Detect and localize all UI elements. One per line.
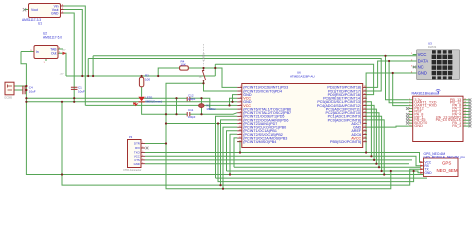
svg-text:16MHz: 16MHz (206, 107, 216, 111)
svg-text:15: 15 (464, 113, 466, 115)
svg-text:10uF: 10uF (78, 90, 85, 94)
svg-text:5: 5 (409, 110, 410, 112)
svg-text:10: 10 (409, 125, 411, 127)
svg-text:5: 5 (142, 159, 143, 161)
svg-text:VCC: VCC (418, 52, 427, 57)
svg-text:TAB: TAB (50, 47, 57, 51)
svg-text:C12: C12 (188, 94, 194, 98)
svg-text:14: 14 (464, 116, 466, 118)
svg-text:Vout: Vout (31, 8, 38, 12)
svg-text:100: 100 (145, 77, 150, 81)
svg-text:17: 17 (464, 107, 466, 109)
svg-text:NC: NC (418, 64, 424, 69)
svg-text:9: 9 (409, 122, 410, 124)
svg-text:U1: U1 (38, 21, 42, 25)
svg-text:GND: GND (134, 162, 140, 166)
svg-text:GPS_MODULE_NEO-6M_pro: GPS_MODULE_NEO-6M_pro (424, 155, 466, 159)
svg-text:100pF: 100pF (188, 97, 196, 101)
svg-text:DATA: DATA (418, 58, 429, 63)
svg-text:P3: P3 (129, 135, 133, 139)
svg-text:11: 11 (464, 125, 466, 127)
svg-text:12: 12 (464, 122, 466, 124)
svg-text:DHT22: DHT22 (428, 45, 437, 49)
svg-text:FTDI-Connector: FTDI-Connector (124, 169, 142, 172)
svg-text:GND: GND (418, 70, 427, 75)
svg-text:3: 3 (142, 151, 143, 153)
svg-text:2: 2 (409, 102, 410, 104)
svg-text:U3: U3 (428, 42, 432, 46)
svg-text:ATMEGA328P-AU: ATMEGA328P-AU (290, 74, 315, 78)
svg-text:PB5(SCK/PCINT5): PB5(SCK/PCINT5) (330, 140, 361, 144)
svg-text:7: 7 (409, 116, 410, 118)
svg-text:8: 8 (409, 119, 410, 121)
svg-text:100pF: 100pF (188, 115, 196, 119)
svg-text:19: 19 (464, 102, 466, 104)
svg-text:1: 1 (142, 142, 143, 144)
svg-text:RXI: RXI (135, 146, 140, 150)
svg-text:13: 13 (464, 119, 466, 121)
svg-text:4: 4 (409, 107, 410, 109)
svg-text:20: 20 (464, 99, 466, 101)
svg-text:AMS1117-5.0: AMS1117-5.0 (43, 35, 62, 39)
svg-text:4: 4 (142, 155, 143, 157)
svg-text:6: 6 (409, 113, 410, 115)
svg-text:GND: GND (414, 124, 423, 128)
svg-text:PA_3: PA_3 (452, 124, 461, 128)
svg-text:C11: C11 (188, 108, 194, 112)
svg-text:In: In (36, 50, 39, 54)
svg-text:0805(Green): 0805(Green) (145, 99, 162, 103)
svg-text:6: 6 (142, 162, 143, 164)
svg-text:+5V: +5V (60, 74, 64, 76)
svg-text:3: 3 (409, 104, 410, 106)
svg-text:18: 18 (464, 104, 466, 106)
svg-text:GND: GND (51, 12, 59, 16)
svg-text:GND: GND (425, 171, 433, 175)
svg-text:RAK811Breakout: RAK811Breakout (412, 92, 440, 96)
svg-text:RESET: RESET (201, 53, 204, 62)
svg-text:DC005: DC005 (5, 97, 13, 100)
svg-text:10K: 10K (181, 63, 186, 67)
svg-text:DTR: DTR (134, 142, 140, 146)
svg-text:10uF: 10uF (29, 89, 36, 93)
svg-text:Out: Out (51, 52, 57, 56)
svg-text:NEO_6EM: NEO_6EM (437, 168, 458, 173)
svg-text:GPS: GPS (442, 161, 451, 166)
svg-text:+5V: +5V (62, 50, 66, 52)
svg-text:2: 2 (142, 147, 143, 149)
svg-text:(PCINT4/MISO)PB4: (PCINT4/MISO)PB4 (243, 140, 276, 144)
svg-text:1: 1 (409, 99, 410, 101)
svg-text:16: 16 (464, 110, 466, 112)
